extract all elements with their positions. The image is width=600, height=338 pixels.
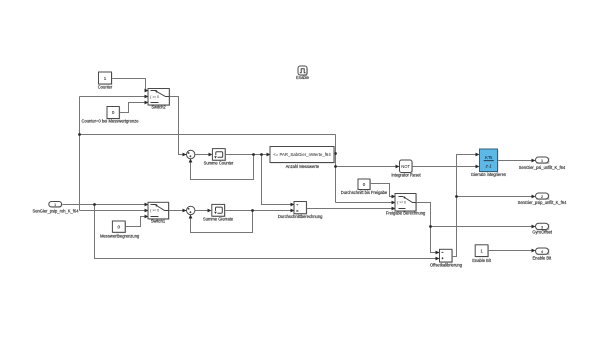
svg-text:4: 4	[541, 250, 543, 254]
svg-text:Anzahl Messwerte: Anzahl Messwerte	[286, 164, 320, 169]
svg-text:Offsetkalibrierung: Offsetkalibrierung	[430, 262, 463, 267]
svg-text:SenGier_psip_roh_K_f64: SenGier_psip_roh_K_f64	[33, 209, 80, 214]
svg-text:Messwertbegrenzung: Messwertbegrenzung	[100, 234, 140, 239]
svg-text:1: 1	[541, 159, 543, 163]
svg-text:Enable Bit: Enable Bit	[472, 258, 492, 263]
svg-text:2: 2	[541, 195, 543, 199]
svg-text:SenGier_psip_unfilt_K_f64: SenGier_psip_unfilt_K_f64	[518, 200, 567, 205]
svg-text:{ >= 0: { >= 0	[397, 201, 406, 205]
svg-text:<= PAR_SabGier_nWerte_f64: <= PAR_SabGier_nWerte_f64	[273, 152, 331, 157]
svg-text:GyroOffset: GyroOffset	[532, 230, 553, 235]
svg-text:KTs: KTs	[485, 155, 493, 160]
svg-text:Enable: Enable	[296, 75, 309, 80]
svg-text:Durchschnittberechnung: Durchschnittberechnung	[278, 214, 323, 219]
svg-text:Gierrate integrieren: Gierrate integrieren	[471, 172, 507, 177]
svg-text:Integrator Reset: Integrator Reset	[391, 172, 421, 177]
svg-text:{ >= 0: { >= 0	[150, 95, 159, 99]
svg-text:Durchschnitt bis Freigabe: Durchschnitt bis Freigabe	[341, 190, 388, 195]
svg-text:NOT: NOT	[401, 164, 410, 169]
svg-text:×: ×	[296, 209, 299, 214]
svg-text:{ >= 0: { >= 0	[150, 209, 159, 213]
svg-text:Counter=0 bei Messwertgrenze: Counter=0 bei Messwertgrenze	[81, 118, 139, 123]
svg-text:1: 1	[54, 203, 56, 207]
svg-text:z-1: z-1	[485, 163, 493, 168]
svg-text:Freigabe Berechnung: Freigabe Berechnung	[386, 211, 426, 216]
svg-text:Counter: Counter	[98, 84, 113, 89]
svg-text:Enable Bit: Enable Bit	[532, 255, 552, 260]
svg-text:Summe Counter: Summe Counter	[204, 160, 234, 165]
svg-text:Summe Gierrate: Summe Gierrate	[203, 216, 234, 221]
svg-text:SenGier_psi_unfilt_K_f64: SenGier_psi_unfilt_K_f64	[519, 165, 566, 170]
svg-text:Switch2: Switch2	[151, 105, 166, 110]
svg-text:Switch1: Switch1	[151, 219, 166, 224]
